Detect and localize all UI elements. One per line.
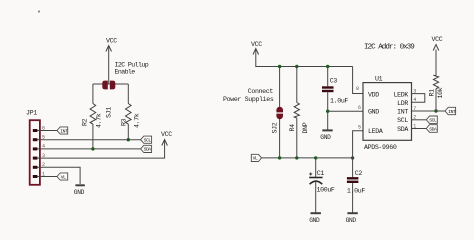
- tag SCL: [141, 136, 152, 143]
- svg-text:C3: C3: [330, 78, 338, 85]
- svg-text:1.0uF: 1.0uF: [347, 188, 365, 195]
- ground (C2): [346, 213, 358, 224]
- node SCL junction: [127, 138, 130, 141]
- svg-text:SJ2: SJ2: [271, 122, 278, 133]
- svg-text:R1: R1: [428, 89, 435, 97]
- VCC symbol (supply rail): [251, 41, 262, 55]
- svg-text:Enable: Enable: [115, 69, 136, 76]
- wire pin2 to GND: [44, 167, 80, 184]
- wire INT net: [412, 110, 446, 112]
- node rail-SJ2: [278, 65, 281, 68]
- node GND-C3 junction: [326, 110, 329, 113]
- IC U1 APDS-9960: [356, 76, 416, 151]
- node VL-R4: [295, 156, 298, 159]
- wire U1 VDD pin: [353, 67, 363, 94]
- node INT-R1 junction: [434, 109, 437, 112]
- JP1 pads and stubs: [33, 125, 45, 178]
- svg-text:JP1: JP1: [26, 110, 37, 117]
- svg-text:R2: R2: [82, 118, 89, 126]
- tag INT (left): [57, 127, 68, 134]
- svg-text:R4: R4: [289, 124, 296, 132]
- svg-text:SJ1: SJ1: [106, 107, 113, 118]
- wire pin5 to SCL: [44, 139, 141, 141]
- solder jumper SJ2: [271, 67, 283, 158]
- svg-text:GND: GND: [309, 217, 320, 224]
- svg-text:1.0uF: 1.0uF: [330, 97, 348, 104]
- resistor R2: [82, 84, 103, 149]
- wire pin1 to VL: [44, 176, 57, 178]
- svg-text:INT: INT: [448, 109, 456, 115]
- svg-text:DNP: DNP: [302, 122, 309, 133]
- svg-text:GND: GND: [346, 217, 357, 224]
- svg-text:INT: INT: [397, 108, 408, 115]
- svg-text:VCC: VCC: [106, 38, 117, 45]
- svg-text:SDA: SDA: [144, 147, 152, 153]
- tag SDA: [141, 145, 152, 152]
- svg-text:SCL: SCL: [429, 118, 437, 124]
- resistor R4: [289, 67, 309, 158]
- tag SCL (right): [426, 116, 437, 124]
- svg-text:VCC: VCC: [161, 131, 172, 138]
- svg-text:SCL: SCL: [144, 138, 152, 144]
- wire VCC to R2/R3 tops: [93, 83, 128, 85]
- svg-text:SDA: SDA: [429, 126, 437, 132]
- svg-text:LEDA: LEDA: [368, 128, 383, 135]
- svg-text:4.7k: 4.7k: [96, 113, 103, 128]
- svg-text:C2: C2: [355, 170, 363, 177]
- text Connect Power Supplies: [223, 88, 274, 103]
- capacitor C2: [347, 158, 365, 213]
- svg-text:R3: R3: [121, 118, 128, 126]
- node SDA junction: [91, 147, 94, 150]
- tag INT (right): [445, 107, 456, 115]
- node rail-C3: [326, 65, 329, 68]
- VCC symbol (R1 pullup): [432, 36, 443, 51]
- svg-text:Power Supplies: Power Supplies: [223, 96, 274, 103]
- svg-text:VL: VL: [253, 156, 258, 162]
- svg-text:6: 6: [358, 105, 361, 111]
- capacitor C1 (polarized): [309, 158, 335, 213]
- wire VCC rail: [256, 50, 353, 67]
- resistor R3: [121, 84, 141, 140]
- svg-text:APDS-9960: APDS-9960: [364, 144, 397, 151]
- svg-text:Connect: Connect: [248, 88, 274, 95]
- resistor R1: [428, 50, 444, 112]
- VCC symbol (pin3): [161, 131, 172, 146]
- node VL-SJ2: [278, 156, 281, 159]
- svg-text:SCL: SCL: [397, 117, 408, 124]
- node VL-C1: [314, 156, 317, 159]
- solder jumper SJ1: [102, 81, 115, 118]
- svg-text:VDD: VDD: [368, 92, 379, 99]
- svg-text:VCC: VCC: [432, 36, 443, 43]
- svg-text:4.7k: 4.7k: [133, 113, 140, 128]
- ground (C3 / U1 GND): [320, 130, 332, 141]
- svg-text:LDR: LDR: [397, 100, 408, 107]
- svg-text:GND: GND: [368, 108, 379, 115]
- svg-text:8: 8: [356, 86, 359, 92]
- text I2C Pullup Enable: [115, 62, 149, 76]
- svg-text:I2C Pullup: I2C Pullup: [115, 62, 149, 69]
- svg-text:C1: C1: [317, 170, 325, 177]
- ground (C1): [309, 213, 321, 224]
- svg-text:VL: VL: [61, 174, 66, 180]
- svg-text:LEDK: LEDK: [394, 92, 409, 99]
- connector JP1 body: [26, 110, 40, 185]
- svg-text:10k: 10k: [437, 87, 444, 98]
- svg-text:SDA: SDA: [397, 126, 408, 133]
- tag VL: [57, 173, 68, 180]
- svg-text:5: 5: [358, 125, 361, 131]
- svg-text:U1: U1: [375, 76, 383, 83]
- svg-text:GND: GND: [320, 134, 331, 141]
- wire pin6 to INT: [44, 130, 57, 132]
- wire LEDK-LDR loop: [412, 94, 425, 103]
- wire U1 GND pin: [328, 110, 363, 112]
- ground (JP1 pin2): [74, 185, 85, 196]
- svg-text:GND: GND: [74, 189, 85, 196]
- tag VL (right, points right): [251, 154, 261, 161]
- wire VL rail: [262, 157, 353, 159]
- stray mark: [38, 10, 40, 12]
- svg-text:VCC: VCC: [251, 41, 262, 48]
- wire U1 SCL pin: [412, 119, 427, 121]
- wire pin4 to SDA: [44, 148, 141, 150]
- svg-text:100uF: 100uF: [317, 187, 335, 194]
- node VL-C2-LEDA: [351, 156, 354, 159]
- svg-text:I2C Addr: 0x39: I2C Addr: 0x39: [364, 44, 415, 52]
- svg-text:INT: INT: [60, 128, 68, 134]
- capacitor C3: [322, 67, 348, 130]
- wire pin3 to VCC: [44, 141, 165, 159]
- wire U1 LEDA pin: [353, 131, 363, 158]
- VCC symbol (pullup enable): [106, 38, 117, 85]
- node rail-R4: [295, 65, 298, 68]
- tag SDA (right): [426, 125, 437, 133]
- wire U1 SDA pin: [412, 128, 427, 130]
